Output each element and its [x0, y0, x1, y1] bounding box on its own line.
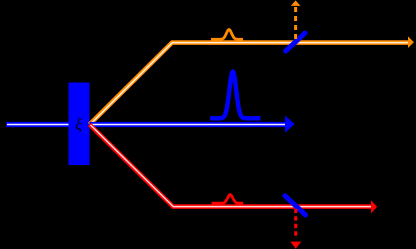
beam splitter on orange line — [286, 33, 305, 51]
blue output beam — [90, 122, 292, 127]
red dashed arrow (down) — [290, 209, 301, 249]
red beam path — [90, 125, 373, 207]
blue pulse — [210, 72, 260, 119]
crystal (blue rectangle) — [69, 83, 90, 166]
orange output arrowhead — [408, 36, 414, 48]
orange dashed arrow (up) — [291, 0, 301, 41]
blue output arrowhead — [285, 116, 295, 133]
input beam (blue) — [6, 122, 69, 127]
svg-text:ξ: ξ — [75, 117, 82, 134]
red output arrowhead — [371, 200, 377, 213]
red pulse — [212, 195, 244, 204]
beam splitter on red line — [285, 196, 306, 215]
orange beam path — [90, 43, 410, 125]
orange pulse — [211, 30, 243, 40]
